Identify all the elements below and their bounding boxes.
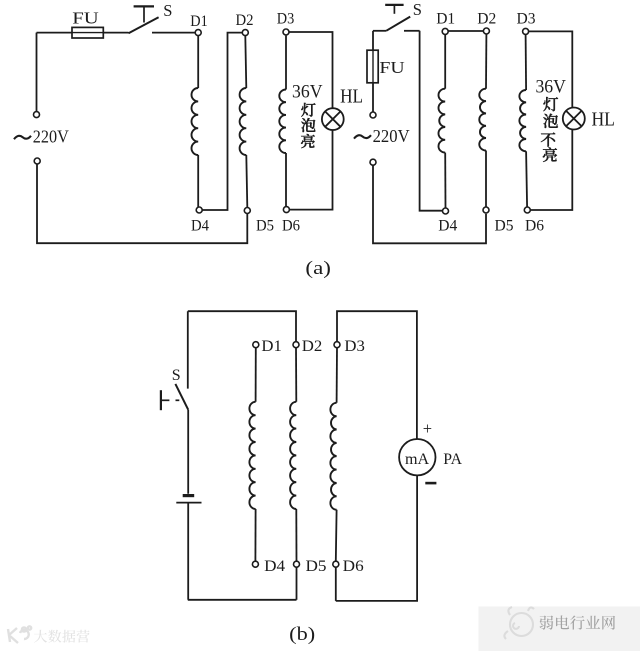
node D3	[283, 29, 289, 35]
svg-text:D3: D3	[277, 11, 295, 28]
svg-text:D4: D4	[191, 217, 209, 234]
source terminal upper (left ~220V)	[36, 33, 38, 112]
watermark bottom-left logo (faint)	[8, 626, 31, 643]
winding D1-D4 (right circuit)	[444, 34, 446, 88]
svg-text:D6: D6	[525, 218, 544, 235]
svg-text:D5: D5	[256, 217, 274, 234]
label ~220V (left)	[14, 136, 31, 139]
svg-text:220V: 220V	[373, 126, 410, 146]
wire switch to D1	[152, 32, 198, 34]
switch S (left circuit)	[129, 17, 159, 33]
node D3 (right)	[523, 28, 529, 34]
wire left loop left upper (b)	[187, 311, 189, 388]
node D4 (right)	[443, 208, 449, 214]
node D2	[242, 30, 248, 36]
svg-text:D3: D3	[517, 11, 536, 28]
node D5 (b)	[294, 561, 300, 567]
wire D1 to D2 top link (right)	[448, 30, 483, 32]
winding D3-D6 (right circuit)	[525, 34, 528, 90]
svg-text:D6: D6	[343, 558, 364, 575]
wire left loop bottom (b)	[188, 599, 297, 601]
svg-text:36V: 36V	[292, 83, 323, 103]
watermark bottom-left text (faint)	[34, 630, 47, 643]
meter minus terminal	[425, 482, 436, 485]
switch S (right circuit)	[386, 17, 410, 31]
svg-text:+: +	[423, 419, 432, 438]
node D6 (b)	[333, 561, 339, 567]
label ~220V (right)	[354, 135, 371, 138]
svg-text:D1: D1	[261, 338, 282, 355]
svg-text:D5: D5	[306, 558, 327, 575]
battery GB (b)	[183, 494, 195, 497]
svg-text:mA: mA	[405, 449, 429, 468]
svg-text:D4: D4	[438, 218, 457, 235]
svg-text:D4: D4	[264, 558, 285, 575]
svg-text:D5: D5	[495, 218, 514, 235]
wire lamp branch (right circuit)	[529, 31, 573, 107]
svg-text:FU: FU	[72, 8, 99, 27]
winding D2-D5 (left circuit)	[245, 36, 246, 88]
svg-text:D2: D2	[477, 11, 496, 28]
wire feed down to D4 (right)	[420, 31, 443, 211]
lamp HL (right circuit)	[563, 108, 585, 130]
node D2 (right)	[483, 28, 489, 34]
wire source down to bottom wire (right)	[373, 165, 486, 243]
wire source top to switch (right)	[373, 30, 386, 32]
lamp HL (left circuit)	[322, 108, 344, 130]
svg-text:D2: D2	[236, 12, 254, 29]
winding D1-D4 (b)	[255, 348, 257, 402]
fuse FU (right circuit, vertical)	[372, 31, 374, 50]
svg-text:HL: HL	[340, 87, 363, 108]
winding D2-D5 (right circuit)	[485, 34, 487, 89]
winding D3-D6 (left circuit)	[285, 36, 287, 90]
milliammeter PA (b)	[399, 439, 435, 475]
node D5	[244, 208, 250, 214]
wire D5 down to bottom and back to source	[37, 164, 247, 243]
node D4 (b)	[252, 561, 258, 567]
switch S (b)	[175, 384, 188, 410]
wire D2 to D4 series link	[202, 33, 242, 210]
winding D2-D5 (b)	[295, 348, 297, 402]
node D4	[196, 207, 202, 213]
source terminal lower (left ~220V)	[34, 158, 40, 164]
wire lamp branch (left circuit)	[289, 32, 333, 108]
svg-text:HL: HL	[591, 110, 615, 131]
svg-text:(a): (a)	[305, 258, 331, 279]
node D5 (right)	[483, 207, 489, 213]
watermark bottom-right logo	[504, 607, 534, 639]
wire right loop bottom (b)	[336, 476, 417, 601]
svg-text:D3: D3	[344, 338, 365, 355]
node D1 (right)	[442, 28, 448, 34]
svg-text:D6: D6	[282, 217, 300, 234]
wire right loop top (b)	[337, 311, 417, 439]
wire left loop top (b)	[188, 311, 296, 342]
svg-text:PA: PA	[443, 451, 462, 468]
svg-text:S: S	[163, 1, 172, 20]
svg-text:S: S	[413, 0, 422, 19]
source terminal lower (right ~220V)	[370, 159, 376, 165]
winding D3-D6 (b)	[336, 348, 338, 403]
fuse FU (left circuit)	[72, 27, 103, 38]
wire source top to fuse (left circuit)	[37, 32, 73, 34]
svg-text:D2: D2	[302, 338, 323, 355]
node D6	[283, 207, 289, 213]
wire switch to feed drop (right)	[404, 30, 420, 32]
node D1 (b)	[253, 342, 259, 348]
source terminal upper (right ~220V)	[370, 112, 376, 118]
node D6 (right)	[524, 207, 530, 213]
node D1	[195, 30, 201, 36]
svg-text:36V: 36V	[535, 78, 566, 98]
wire fuse to switch	[103, 32, 128, 34]
svg-text:FU: FU	[379, 58, 404, 77]
wire D5 to bottom wire (b)	[296, 567, 298, 600]
svg-text:D1: D1	[436, 11, 455, 28]
node D2 (b)	[293, 342, 299, 348]
watermark text 弱电行业网	[540, 616, 554, 630]
svg-text:S: S	[172, 367, 181, 384]
winding D1-D4 (left circuit)	[197, 33, 199, 88]
watermark bottom-right panel	[478, 607, 640, 651]
svg-text:(b): (b)	[289, 624, 315, 645]
svg-text:D1: D1	[190, 13, 208, 30]
svg-text:220V: 220V	[33, 127, 69, 147]
node D3 (b)	[334, 342, 340, 348]
wire switch to battery (b)	[187, 410, 189, 494]
wire D6 to bottom wire (b)	[335, 567, 337, 601]
wire battery to bottom (b)	[187, 503, 189, 599]
